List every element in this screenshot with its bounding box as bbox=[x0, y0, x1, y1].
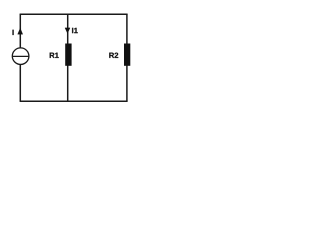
wire top rail bbox=[20, 13, 128, 15]
resistor R1 bbox=[65, 44, 71, 66]
wire middle branch bbox=[67, 14, 69, 101]
wire left branch bbox=[19, 14, 21, 101]
label R2 bbox=[109, 53, 118, 58]
resistor R2 bbox=[124, 44, 130, 66]
wire bottom rail bbox=[20, 100, 128, 102]
wire right branch bbox=[126, 14, 128, 101]
label I bbox=[13, 30, 14, 35]
label I1 bbox=[72, 28, 78, 33]
current arrow of source I (up) bbox=[18, 28, 23, 34]
current arrow I1 (down) bbox=[65, 28, 70, 33]
current source I (circle with bar) bbox=[12, 48, 29, 65]
label R1 bbox=[50, 53, 59, 58]
